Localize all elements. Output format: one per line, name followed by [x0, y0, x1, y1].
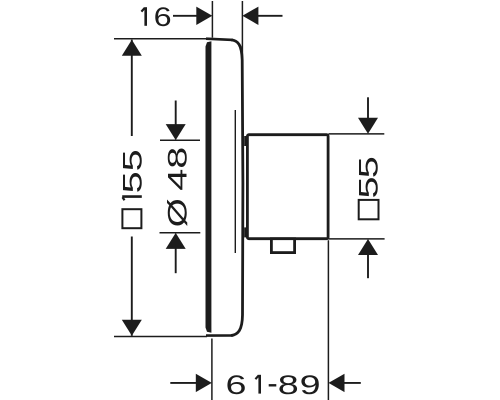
dim 55 arrow bottom (pointing up)	[358, 239, 378, 255]
dim 55 arrow top (pointing down)	[358, 118, 378, 134]
svg-text:6: 6	[154, 2, 172, 32]
dim 55 extension line top	[329, 133, 385, 135]
dim 48 tail bottom	[175, 248, 177, 273]
label 16 digit 1	[141, 7, 145, 26]
escutcheon plate domed right silhouette	[231, 40, 243, 336]
dim 55 tail top	[367, 97, 369, 118]
dim 16 extension line right	[241, 1, 243, 61]
handle rear flange tick bottom	[244, 227, 246, 237]
handle rear flange tick top	[244, 136, 246, 146]
label 155 digit 1 (rotated)	[122, 197, 142, 201]
label 61-89 digit 1	[255, 375, 259, 394]
dim 48 tail top	[175, 101, 177, 125]
dim 16 arrow right	[242, 7, 258, 25]
svg-text:4: 4	[163, 169, 193, 191]
svg-text:8: 8	[278, 370, 299, 400]
dim 55 tail bottom	[367, 255, 369, 279]
dim 61-89 arrow left (pointing right)	[196, 374, 212, 392]
dim 16 tail left	[173, 15, 197, 17]
svg-text:9: 9	[300, 370, 321, 400]
dim 16 extension line left	[211, 1, 213, 38]
svg-text:6: 6	[226, 370, 247, 400]
dim 48 arrow bottom (pointing up)	[166, 233, 186, 249]
svg-text:8: 8	[163, 147, 193, 169]
svg-text:5: 5	[354, 156, 384, 178]
svg-text:5: 5	[354, 177, 384, 199]
dim 61-89 extension line right	[327, 240, 329, 400]
dim 48 extension line top	[160, 139, 200, 141]
handle body	[247, 135, 328, 239]
label square symbol of 155	[122, 209, 141, 228]
dim 48 arrow top (pointing down)	[166, 124, 186, 140]
escutcheon plate bottom edge	[206, 334, 233, 337]
dim 61-89 extension line left	[211, 339, 213, 400]
dim 155 arrow down	[122, 320, 142, 336]
label square symbol of 55	[359, 200, 379, 219]
dim 55 extension line bottom	[329, 238, 385, 240]
dim 155 line upper segment	[131, 40, 133, 136]
svg-text:Ø: Ø	[163, 198, 193, 227]
dim 16 tail right	[258, 15, 283, 17]
label 61-89 hyphen	[269, 384, 277, 386]
handle button tab	[271, 239, 294, 253]
svg-text:5: 5	[118, 171, 148, 193]
dim 16 arrow left	[196, 7, 212, 25]
dim 48 extension line bottom	[160, 232, 201, 234]
svg-text:5: 5	[118, 149, 148, 171]
dim 155 arrow up	[122, 40, 142, 56]
dim 155 line lower segment	[131, 237, 133, 336]
escutcheon plate front face bar	[206, 41, 212, 333]
dim 61-89 tail right	[344, 382, 361, 384]
dim 61-89 arrow right (pointing left)	[329, 374, 345, 392]
dim 155 extension line bottom	[114, 336, 207, 338]
escutcheon plate top edge	[206, 39, 233, 40]
escutcheon plate inner dome line	[234, 110, 236, 253]
dim 61-89 tail left	[170, 382, 196, 384]
dim 155 extension line top	[114, 38, 207, 40]
